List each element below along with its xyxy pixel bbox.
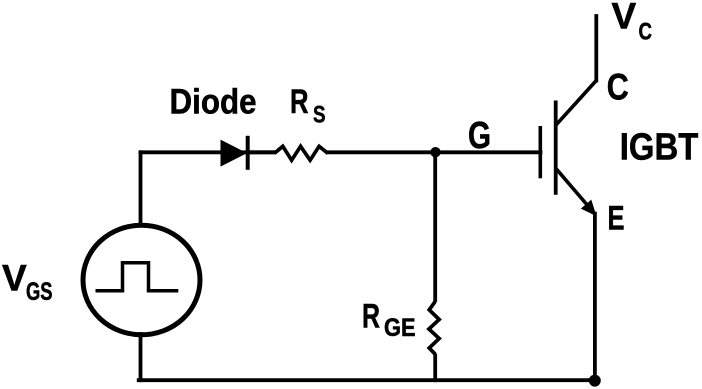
svg-text:GS: GS [26,278,53,306]
emitter diagonal [556,169,588,207]
svg-text:IGBT: IGBT [620,126,699,168]
wire: vertical from node G down to resistor RGE [433,152,437,300]
svg-text:Diode: Diode [170,83,257,122]
wire: top rail right segment (resistor RS to IGBT gate) [329,150,541,154]
label VGS [2,257,53,306]
wire: IGBT collector vertical up to VC [594,16,598,81]
svg-text:E: E [608,200,625,238]
body bar [554,101,558,195]
voltage source VGS (circle with pulse symbol) [83,225,200,335]
label RGE [362,297,416,342]
wire: top rail middle segment (diode cathode to resistor RS) [249,150,274,154]
svg-text:V: V [2,257,27,298]
diode (anode triangle + cathode bar) [222,136,248,170]
resistor RS (horizontal zigzag) [275,146,329,160]
wire: left vertical from top rail down to source VGS top [139,152,143,225]
svg-text:R: R [290,83,309,121]
svg-text:C: C [607,67,629,108]
svg-text:C: C [639,19,653,46]
resistor RGE (vertical zigzag) [429,302,439,355]
node G (junction dot) [430,147,440,157]
wire: top rail left segment (source top to diode anode) [141,150,275,154]
svg-text:R: R [362,297,380,335]
svg-text:GE: GE [384,314,416,342]
gate bar [538,126,542,178]
svg-text:V: V [612,0,637,36]
svg-text:G: G [468,115,491,157]
collector diagonal [556,81,597,126]
wire: bottom rail [139,378,595,382]
wire: vertical from resistor RGE bottom to bottom rail [433,356,437,381]
wire: left vertical from source VGS bottom to bottom rail [139,334,143,380]
node at emitter / bottom rail (junction dot) [589,375,601,387]
label RS [290,83,326,128]
transistor IGBT symbol [540,81,596,215]
label VC [612,0,653,46]
wire: IGBT emitter vertical down to bottom rail [593,214,597,381]
emitter arrowhead [582,201,595,215]
svg-text:S: S [313,101,326,128]
